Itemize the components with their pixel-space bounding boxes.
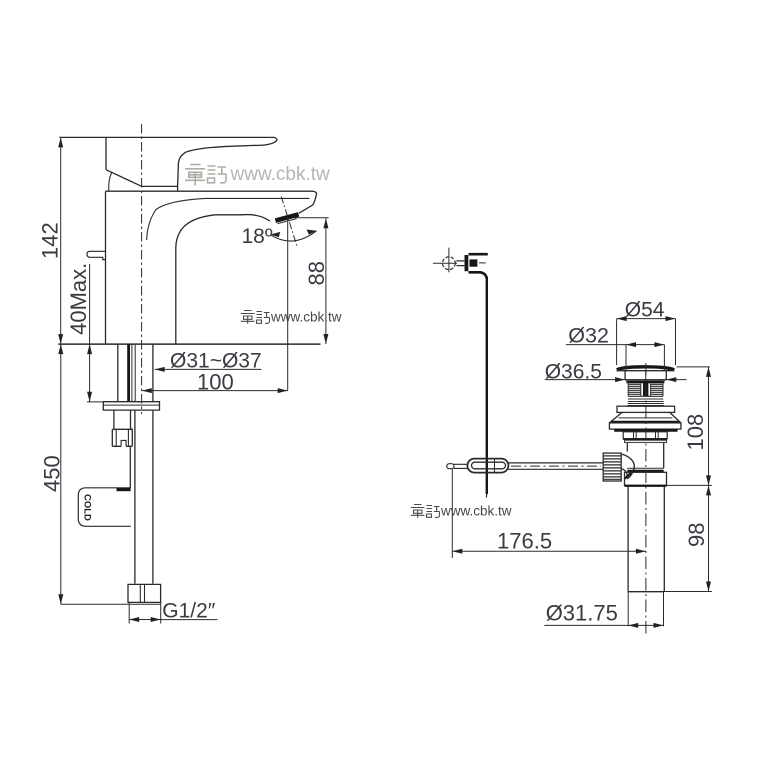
compression nut [112,429,132,446]
pivot rod right segment [508,463,603,469]
bell left side [609,413,621,423]
drain cap cylinder [625,371,666,380]
108 arrows [706,367,711,377]
svg-text:www.cbk.tw: www.cbk.tw [270,310,342,325]
svg-text:98: 98 [684,523,709,547]
supply hose lines [134,410,136,584]
rod bracket top bar [469,253,488,256]
faucet body left edge [105,191,107,344]
svg-text:Ø36.5: Ø36.5 [545,361,602,384]
Ø31.75 dimension line [544,624,663,626]
G1/2 dimension line [129,619,161,621]
450 bottom reference line [61,603,161,605]
bell bottom dark [611,421,680,423]
142 arrows [58,137,63,147]
bottom extension line [664,591,712,593]
CJK glyph 章 small [241,311,255,324]
locknut [623,432,667,439]
groove hatch lines [628,384,663,394]
arrowheads [58,137,711,628]
mid extension line [667,484,712,486]
bell inner line [619,417,673,419]
svg-text:COLD: COLD [82,494,93,521]
connector tubes below flange [113,410,115,429]
bell right side [670,413,681,423]
40Max dimension line [89,264,91,402]
faucet body top line [106,190,314,192]
svg-text:18º: 18º [242,225,273,248]
450 arrows [58,344,63,354]
spout lower-left fillet curve B and body right edge [176,215,215,344]
100 dimension line [142,390,288,392]
18 degree arc [271,231,317,241]
vertical reference line through aerator [287,218,289,391]
grooved section top dark [626,381,664,383]
svg-text:www.cbk.tw: www.cbk.tw [230,164,331,185]
faucet base bottom line [58,343,320,345]
drain cap dome [617,367,674,370]
svg-text:www.cbk.tw: www.cbk.tw [440,504,512,519]
shank right edge below base [152,344,154,402]
spout underside line [215,215,270,221]
Ø54 arrows [617,316,627,321]
faucet handle top line with 142 extension [59,136,274,138]
svg-text:Ø54: Ø54 [625,299,665,322]
faucet handle base left edge [105,138,107,170]
centerline dash-dot faucet [141,124,143,414]
slip nut [625,472,667,485]
rod bracket bottom bar with curve [469,272,487,278]
elbow arc outer [621,454,634,479]
top flange [617,406,675,412]
100 arrows [142,388,152,393]
clevis slot [472,462,506,469]
ribbed section [628,396,665,405]
dark band under flange [614,429,677,432]
faucet handle base diagonal [106,170,142,187]
142 dimension line [60,137,62,344]
lift rod tip [485,493,487,498]
98 arrows [706,485,711,495]
aerator lower thin edge [278,219,297,224]
Ø31~Ø37 leader arrow [155,367,165,372]
body shoulder arc behind handle [109,172,112,191]
tee body upper tube [627,443,663,469]
nut U-notch [121,440,126,446]
drain cap base line [617,370,675,372]
G1/2 underline [161,619,218,621]
elbow arc inner [621,469,627,479]
svg-text:40Max.: 40Max. [66,263,91,335]
svg-text:450: 450 [40,455,65,492]
hose tails in shank [131,344,133,402]
watermark 3 small [411,505,440,518]
shank left edge below base [117,344,119,402]
drain centerline [645,363,647,634]
clevis divider [494,459,496,473]
Ø31.75 arrows [628,623,638,628]
grooved section sides [628,381,663,396]
bottom hose nut [128,584,161,602]
pull-rod hook at faucet back [87,251,106,259]
88 dimension line [325,218,327,344]
lift rod knob circle [443,257,456,270]
big flange disc [609,423,681,429]
G1/2 arrows [129,617,139,622]
svg-text:Ø31.75: Ø31.75 [546,601,618,626]
176.5 dimension line [452,550,646,552]
knurled knob [603,453,621,481]
Ø36.5 arrows [615,377,625,382]
88 arrows [323,218,328,228]
108 top extension line [677,366,710,368]
Ø31.75 extension lines [628,592,663,627]
drain tube lower [628,486,664,591]
CJK glyph 章 large [185,165,205,186]
watermark 1 large [185,165,226,186]
18 arc arrows [271,232,281,237]
pivot rod centerline [511,465,601,467]
cap center line [645,371,647,380]
washer [623,438,667,440]
svg-text:176.5: 176.5 [497,529,552,554]
Ø36.5 leader line [545,379,687,381]
spout tip curl [299,191,317,213]
40Max arrows [87,344,92,354]
pivot rod left segment [454,464,467,468]
CJK glyph 記 small [257,312,270,324]
watermark 2 small [241,311,270,324]
CJK glyph 章 small [411,505,425,518]
Ø54 dimension line [617,318,676,320]
vertical lift rod [486,277,488,494]
threaded stud dark [127,344,130,402]
COLD tag outline [78,488,131,527]
Ø54 extension lines [617,319,676,365]
spout second contour line [205,197,310,199]
bracket set screw [470,259,478,266]
Ø32 extension lines [626,345,664,370]
bracket tick [479,262,486,264]
mounting flange [103,402,159,410]
aerator dark band [275,214,298,220]
knob stem [456,261,464,266]
18 degree dashed line [281,197,297,246]
108-98 dimension line [708,367,710,592]
clevis outer [467,459,508,473]
rod bracket left plate [464,255,468,271]
COLD tag clip dark [117,488,131,491]
hose line to COLD tag [129,446,131,488]
svg-text:100: 100 [197,370,234,395]
Ø32 arrows [626,342,636,347]
svg-text:88: 88 [304,261,329,285]
svg-text:Ø32: Ø32 [568,324,609,348]
176.5 arrows [452,549,462,554]
Ø31~Ø37 leader line [155,368,262,370]
pivot rod left tip [447,464,454,469]
svg-text:108: 108 [683,414,708,451]
450 dimension line [60,344,62,604]
flange-top extension line [87,401,103,403]
spout upper-left fillet curve A [147,198,205,240]
Ø32 leader and dimension line [566,344,665,346]
CJK glyph 記 small [427,506,440,518]
dimension texts [38,222,710,625]
faucet handle base bottom line [142,186,179,191]
faucet handle lever tip and underside [178,137,277,186]
elbow wedge dark [625,473,631,479]
knob crosshair [433,248,457,273]
svg-text:142: 142 [38,222,63,259]
tee joint lines [627,467,663,469]
grooved section center dark [643,381,648,396]
knob knurling [604,456,621,479]
G1/2 extension lines [129,602,161,623]
176.5 left extension line [451,468,453,558]
CJK glyph 記 large [208,166,227,183]
svg-text:G1/2″: G1/2″ [162,600,216,623]
88 top extension line [295,217,329,219]
